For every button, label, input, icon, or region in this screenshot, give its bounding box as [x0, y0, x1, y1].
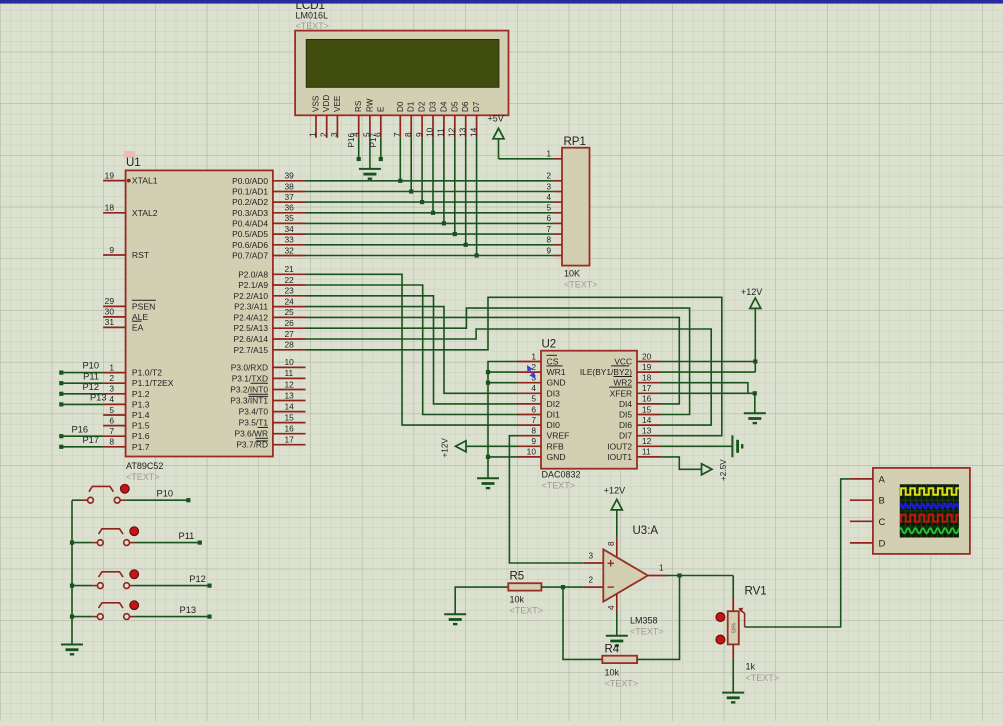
node P17 wire end: [59, 445, 63, 449]
svg-text:7: 7: [546, 225, 551, 234]
svg-text:VEE: VEE: [333, 95, 342, 112]
cursor marker at U2 pin 2: [526, 365, 536, 379]
svg-text:GND: GND: [547, 452, 566, 462]
svg-text:28: 28: [285, 340, 295, 350]
svg-text:1: 1: [659, 564, 664, 573]
oscilloscope trace channel B blue: [899, 504, 961, 509]
svg-text:EA: EA: [132, 322, 144, 332]
oscilloscope trace channel C red: [899, 515, 963, 522]
junction rail at P11: [70, 541, 74, 545]
svg-text:11: 11: [642, 447, 651, 457]
svg-text:1k: 1k: [746, 662, 756, 672]
svg-text:D3: D3: [429, 101, 438, 112]
svg-text:P3.1/TXD: P3.1/TXD: [232, 373, 268, 383]
svg-text:6: 6: [546, 214, 551, 223]
svg-text:IOUT2: IOUT2: [607, 441, 632, 451]
U1 pin 36 P0.3/AD3: [273, 212, 306, 214]
svg-text:31: 31: [105, 317, 115, 327]
svg-text:21: 21: [285, 264, 295, 274]
svg-text:P10: P10: [82, 361, 99, 371]
svg-text:1: 1: [109, 362, 114, 372]
svg-text:29: 29: [105, 296, 115, 306]
svg-text:32: 32: [285, 245, 295, 255]
resistor R4 body: [602, 644, 638, 689]
U1 pin 13 P3.3/INT1: [273, 400, 306, 402]
svg-text:2: 2: [588, 576, 593, 585]
svg-text:RV1: RV1: [745, 586, 767, 598]
svg-text:P17: P17: [82, 435, 99, 445]
svg-text:P12: P12: [189, 574, 206, 584]
wire U2 ILE to rail: [661, 371, 756, 373]
U2 pin 18 WR2: [637, 382, 661, 384]
junction D6/P0.6: [464, 243, 468, 247]
svg-text:37: 37: [285, 192, 295, 202]
power +5V arrow: [493, 128, 504, 139]
svg-text:DI5: DI5: [619, 410, 632, 420]
U1 pin 24 P2.3/A11: [273, 306, 306, 308]
potentiometer RV1 body: [728, 586, 779, 684]
junction D2/P0.2: [420, 200, 424, 204]
node P12 wire end: [59, 392, 63, 396]
svg-text:17: 17: [642, 383, 652, 393]
svg-text:P1.2: P1.2: [132, 389, 150, 399]
push button P11: [92, 527, 138, 546]
U2 pin 5 DI2: [517, 403, 541, 405]
svg-text:P1.6: P1.6: [132, 431, 150, 441]
junction rail/WR1: [486, 370, 490, 374]
wire U2 GND pin10 to rail: [488, 456, 517, 458]
svg-text:20: 20: [642, 351, 652, 361]
svg-text:RST: RST: [132, 250, 150, 260]
svg-text:<TEXT>: <TEXT>: [605, 679, 639, 689]
svg-text:VSS: VSS: [312, 95, 321, 112]
resistor R5 body: [508, 571, 543, 616]
U2 pin 14 DI6: [637, 424, 661, 426]
microcontroller U1 AT89C52 body: [126, 157, 273, 482]
svg-text:17: 17: [285, 435, 295, 445]
wire LCD D0 down to P0.0: [399, 138, 401, 181]
svg-text:AT89C52: AT89C52: [126, 461, 163, 471]
U1 pin 8 P1.7: [103, 446, 126, 448]
svg-text:DI4: DI4: [619, 399, 632, 409]
RV1 adjust dot upper: [716, 613, 725, 622]
svg-text:4: 4: [531, 383, 536, 393]
svg-text:15: 15: [285, 412, 295, 422]
wire button P10 to net label: [125, 499, 188, 501]
svg-text:3: 3: [329, 132, 339, 137]
wire U2 IOUT2 to ground: [661, 445, 733, 447]
U1 pin 12 P3.2/INT0: [273, 389, 306, 391]
wire ground rail to U2 CS pin 1: [488, 362, 517, 479]
svg-text:DI1: DI1: [547, 410, 561, 420]
svg-text:19: 19: [105, 170, 115, 180]
wire P0.0 from U1 to RP1: [306, 180, 554, 182]
U2 pin 19 ILE(BY1/BY2): [637, 371, 661, 373]
U1 pin 5 P1.4: [103, 414, 126, 416]
U1 pin 16 P3.6/WR: [273, 433, 306, 435]
wire LCD D4 down to P0.4: [443, 138, 445, 224]
wire P2.2 to U2 DI2: [306, 296, 518, 404]
RP1 pin 8: [554, 244, 562, 246]
svg-text:RFB: RFB: [547, 441, 564, 451]
RV1 adjust dot lower: [716, 635, 725, 644]
svg-text:7: 7: [392, 132, 402, 137]
svg-text:XFER: XFER: [610, 388, 632, 398]
oscilloscope trace channel D green: [899, 528, 962, 533]
origin marker U1: [124, 151, 135, 158]
svg-text:10: 10: [527, 447, 537, 457]
svg-text:13: 13: [285, 390, 295, 400]
U1 pin 6 P1.5: [103, 425, 126, 427]
svg-text:P2.5/A13: P2.5/A13: [234, 323, 269, 333]
svg-text:LM358: LM358: [630, 616, 658, 626]
svg-text:<TEXT>: <TEXT>: [126, 472, 160, 482]
wire P2.6 to U2 DI6: [306, 329, 712, 425]
svg-text:P0.6/AD6: P0.6/AD6: [232, 240, 268, 250]
U1 pin 27 P2.6/A14: [273, 338, 306, 340]
svg-text:1: 1: [546, 150, 551, 159]
op-amp U3:A pin 3 stub: [584, 562, 604, 564]
RP1 pin 2: [554, 180, 562, 182]
svg-text:18: 18: [642, 373, 652, 383]
svg-text:P3.0/RXD: P3.0/RXD: [231, 362, 268, 372]
wire button P13 to net label: [135, 616, 210, 618]
U1 pin 18 XTAL2: [103, 212, 126, 214]
power +12V arrow above op-amp: [611, 499, 622, 510]
svg-text:P2.7/A15: P2.7/A15: [234, 345, 269, 355]
wire P0.7 from U1 to RP1: [306, 255, 554, 257]
svg-text:1: 1: [531, 351, 536, 361]
RP1 pin 4: [554, 201, 562, 203]
U1 pin 7 P1.6: [103, 435, 126, 437]
svg-text:VCC: VCC: [614, 357, 632, 367]
U1 pin 2 P1.1/T2EX: [103, 382, 126, 384]
U1 pin 14 P3.4/T0: [273, 411, 306, 413]
svg-text:1: 1: [308, 132, 318, 137]
svg-text:P2.1/A9: P2.1/A9: [238, 280, 268, 290]
U2 pin 6 DI1: [517, 414, 541, 416]
svg-text:13: 13: [642, 426, 652, 436]
ground under RV1: [722, 693, 744, 703]
sheet border top: [0, 0, 1003, 4]
wire U2 RFB to +12V: [467, 445, 518, 447]
svg-text:<TEXT>: <TEXT>: [630, 627, 664, 637]
svg-text:10: 10: [285, 357, 295, 367]
U2 pin 12 IOUT2: [637, 445, 661, 447]
svg-text:P10: P10: [157, 488, 174, 498]
svg-text:P0.7/AD7: P0.7/AD7: [232, 251, 268, 261]
svg-text:P0.2/AD2: P0.2/AD2: [232, 197, 268, 207]
U1 pin 35 P0.4/AD4: [273, 222, 306, 224]
LCD display LCD1 body: [295, 31, 508, 116]
wire U2 WR2 jog: [661, 383, 748, 394]
svg-text:14: 14: [642, 415, 652, 425]
wire U1 P11 net: [61, 382, 103, 384]
svg-text:19: 19: [642, 362, 652, 372]
svg-text:24: 24: [285, 296, 295, 306]
svg-text:7: 7: [109, 426, 114, 436]
wire P0.6 from U1 to RP1: [306, 244, 554, 246]
svg-text:VDD: VDD: [322, 95, 331, 112]
svg-text:PSEN: PSEN: [132, 301, 155, 311]
svg-text:P12: P12: [82, 382, 99, 392]
svg-text:+12V: +12V: [741, 287, 762, 297]
wire RV1 to ground: [732, 659, 734, 693]
svg-text:8: 8: [546, 236, 551, 245]
RP1 pin 6: [554, 222, 562, 224]
svg-text:P1.5: P1.5: [132, 421, 150, 431]
junction VCC rail: [753, 359, 757, 363]
wire P2.5 to U2 DI5: [306, 308, 690, 414]
U2 pin 3 GND: [517, 382, 541, 384]
U1 pin 19 XTAL1: [103, 180, 126, 182]
node P17 at E: [379, 157, 383, 161]
svg-text:38: 38: [285, 181, 295, 191]
svg-text:P2.6/A14: P2.6/A14: [234, 334, 269, 344]
U1 EA overline: [132, 320, 142, 322]
wire op-amp V- to ground: [616, 613, 618, 636]
ground under button rail: [61, 645, 83, 655]
svg-text:12: 12: [642, 436, 652, 446]
U1 pin 34 P0.5/AD5: [273, 233, 306, 235]
wire P0.2 from U1 to RP1: [306, 201, 554, 203]
svg-text:DI6: DI6: [619, 420, 632, 430]
U1 pin 21 P2.0/A8: [273, 273, 306, 275]
junction D5/P0.5: [453, 232, 457, 236]
oscilloscope pin D: [850, 542, 873, 544]
svg-text:R5: R5: [510, 571, 525, 583]
U1 pin 38 P0.1/AD1: [273, 191, 306, 193]
svg-text:WR1: WR1: [547, 367, 566, 377]
svg-text:3: 3: [588, 552, 593, 561]
svg-text:R4: R4: [605, 644, 620, 656]
U2 pin 16 DI4: [637, 403, 661, 405]
svg-text:GND: GND: [547, 378, 566, 388]
svg-text:P0.3/AD3: P0.3/AD3: [232, 208, 268, 218]
svg-text:36: 36: [285, 203, 295, 213]
svg-text:D5: D5: [450, 101, 459, 112]
svg-text:RW: RW: [365, 98, 374, 112]
svg-text:P0.5/AD5: P0.5/AD5: [232, 229, 268, 239]
junction D1/P0.1: [409, 189, 413, 193]
wire RV1 wiper to oscilloscope: [745, 479, 850, 627]
junction rail at P13: [70, 615, 74, 619]
svg-text:P2.4/A12: P2.4/A12: [234, 312, 269, 322]
svg-text:16: 16: [642, 394, 652, 404]
push button P10: [83, 485, 130, 504]
U2 pin 10 GND: [517, 456, 541, 458]
svg-text:U3:A: U3:A: [633, 525, 659, 537]
wire XFER ground drop: [754, 393, 756, 413]
wire button P12 to net label: [135, 585, 210, 587]
op-amp U3:A body: [603, 525, 663, 637]
wire P0.4 from U1 to RP1: [306, 222, 554, 224]
oscilloscope pin B: [850, 499, 873, 501]
svg-text:14: 14: [285, 401, 295, 411]
svg-text:34: 34: [285, 224, 295, 234]
wire button common rail: [71, 500, 73, 644]
ground under U2: [477, 478, 499, 488]
U1 pin 15 P3.5/T1: [273, 422, 306, 424]
U1 pin 1 P1.0/T2: [103, 372, 126, 374]
wire rail to button P13: [72, 616, 92, 618]
svg-text:35: 35: [285, 213, 295, 223]
svg-text:WR2: WR2: [613, 378, 632, 388]
svg-text:P3.4/T0: P3.4/T0: [239, 407, 269, 417]
oscilloscope pin A: [850, 478, 873, 480]
power +12V arrow at RFB: [456, 441, 467, 452]
RP1 pin 1: [554, 158, 562, 160]
node P16 wire end: [59, 434, 63, 438]
svg-text:P16: P16: [71, 424, 88, 434]
U2 pin 15 DI5: [637, 414, 661, 416]
wire U1 P17 net: [61, 446, 103, 448]
svg-text:RP1: RP1: [564, 136, 586, 148]
oscilloscope body: [873, 468, 970, 554]
wire U2 GND pin3 to rail: [488, 382, 517, 384]
svg-text:P11: P11: [83, 371, 99, 381]
U1 XTAL1 clock mark: [127, 179, 131, 183]
node P12 wire end: [207, 584, 211, 588]
junction D0/P0.0: [398, 179, 402, 183]
U2 pin 1 CS: [517, 361, 541, 363]
svg-text:23: 23: [285, 286, 295, 296]
svg-text:8: 8: [531, 426, 536, 436]
U1 T1 underline: [258, 426, 269, 428]
U1 pin 25 P2.4/A12: [273, 316, 306, 318]
svg-text:<TEXT>: <TEXT>: [564, 280, 598, 290]
wire LCD D7 down to P0.7: [476, 138, 478, 256]
RP1 pin 5: [554, 212, 562, 214]
U1 pin 17 P3.7/RD: [273, 444, 306, 446]
svg-text:XTAL2: XTAL2: [132, 208, 158, 218]
U1 pin 22 P2.1/A9: [273, 284, 306, 286]
U1 pin 28 P2.7/A15: [273, 349, 306, 351]
U2 pin 7 DI0: [517, 424, 541, 426]
wire U2 IOUT1 to +2.5V: [661, 457, 702, 469]
svg-text:26: 26: [285, 318, 295, 328]
U2 pin 2 WR1: [517, 371, 541, 373]
svg-text:P3.5/T1: P3.5/T1: [239, 418, 269, 428]
svg-text:DAC0832: DAC0832: [542, 470, 581, 480]
svg-text:P1.4: P1.4: [132, 410, 150, 420]
op-amp U3:A pin 4 V- stub: [616, 594, 618, 613]
svg-text:DI2: DI2: [547, 399, 561, 409]
svg-text:DI0: DI0: [547, 420, 561, 430]
svg-text:14: 14: [468, 127, 478, 137]
node P11 wire end: [198, 541, 202, 545]
U2 CS overline: [547, 354, 558, 356]
RP1 pin 3: [554, 191, 562, 193]
wire LCD D3 down to P0.3: [432, 138, 434, 213]
svg-text:C: C: [879, 517, 886, 528]
U1 pin 4 P1.3: [103, 403, 126, 405]
svg-text:DI7: DI7: [619, 431, 632, 441]
wire P2.7 to U2 DI7: [306, 297, 722, 435]
resistor pack RP1 body: [562, 136, 598, 290]
svg-text:9: 9: [109, 245, 114, 255]
svg-text:CS: CS: [547, 357, 559, 367]
push button P12: [92, 570, 138, 589]
wire U2 XFER to ground drop: [661, 392, 755, 394]
U2 pin 17 XFER: [637, 392, 661, 394]
wire U1 P16 net: [61, 435, 103, 437]
U1 pin 23 P2.2/A10: [273, 295, 306, 297]
svg-text:ALE: ALE: [132, 312, 149, 322]
node P11 wire end: [59, 381, 63, 385]
svg-text:5: 5: [546, 204, 551, 213]
svg-text:D1: D1: [407, 101, 416, 112]
svg-text:9: 9: [414, 132, 424, 137]
wire U1 P10 net: [61, 372, 103, 374]
wire U1 P12 net: [61, 393, 103, 395]
U1 pin 33 P0.6/AD6: [273, 244, 306, 246]
U1 pin 9 RST: [103, 254, 126, 256]
svg-text:P16: P16: [347, 132, 356, 147]
svg-text:P11: P11: [179, 531, 195, 541]
svg-text:16: 16: [285, 424, 295, 434]
junction rail/GND10: [486, 455, 490, 459]
wire LCD RS to node P16: [358, 138, 360, 159]
U1 pin 39 P0.0/AD0: [273, 180, 306, 182]
svg-text:6: 6: [531, 404, 536, 414]
svg-text:2: 2: [546, 172, 551, 181]
U2 WR1 overline: [547, 365, 563, 367]
svg-text:2: 2: [109, 373, 114, 383]
svg-text:+12V: +12V: [441, 438, 450, 458]
junction R5/feedback: [561, 585, 565, 589]
svg-text:D2: D2: [418, 101, 427, 112]
svg-text:9: 9: [531, 436, 536, 446]
node P16 at RS: [357, 157, 361, 161]
svg-text:RS: RS: [354, 100, 363, 112]
svg-text:U1: U1: [126, 157, 141, 169]
wire +12V rail down to ILE: [754, 308, 756, 372]
svg-text:P0.4/AD4: P0.4/AD4: [232, 218, 268, 228]
svg-text:8: 8: [607, 541, 616, 546]
svg-text:5: 5: [531, 394, 536, 404]
svg-text:P3.2/INT0: P3.2/INT0: [230, 385, 268, 395]
U2 pin 4 DI3: [517, 392, 541, 394]
ground at LCD RW: [359, 169, 381, 179]
svg-text:4: 4: [109, 394, 114, 404]
svg-text:P3.3/INT1: P3.3/INT1: [230, 396, 268, 406]
svg-text:P0.0/AD0: P0.0/AD0: [232, 176, 268, 186]
U1 pin 11 P3.1/TXD: [273, 377, 306, 379]
svg-text:D: D: [879, 538, 886, 549]
svg-text:5: 5: [109, 405, 114, 415]
U2 WR2 overline: [614, 376, 633, 378]
svg-text:3: 3: [109, 384, 114, 394]
U1 pin 32 P0.7/AD7: [273, 255, 306, 257]
U1 pin 26 P2.5/A13: [273, 327, 306, 329]
svg-text:P3.6/WR: P3.6/WR: [234, 429, 268, 439]
junction D3/P0.3: [431, 211, 435, 215]
RP1 pin 9: [554, 255, 562, 257]
svg-text:P0.1/AD1: P0.1/AD1: [232, 187, 268, 197]
svg-text:+5V: +5V: [488, 114, 504, 124]
svg-text:4: 4: [607, 605, 616, 610]
ground at IOUT2 rotated: [732, 435, 742, 457]
U1 pin 37 P0.2/AD2: [273, 201, 306, 203]
svg-text:9: 9: [546, 246, 551, 255]
ground right of U2: [744, 413, 766, 423]
wire LCD D2 down to P0.2: [421, 138, 423, 202]
wire P2.1 to U2 DI1: [306, 285, 518, 415]
DAC U2 DAC0832 body: [541, 339, 637, 491]
wire LCD D5 down to P0.5: [454, 138, 456, 234]
svg-text:<TEXT>: <TEXT>: [746, 673, 780, 683]
